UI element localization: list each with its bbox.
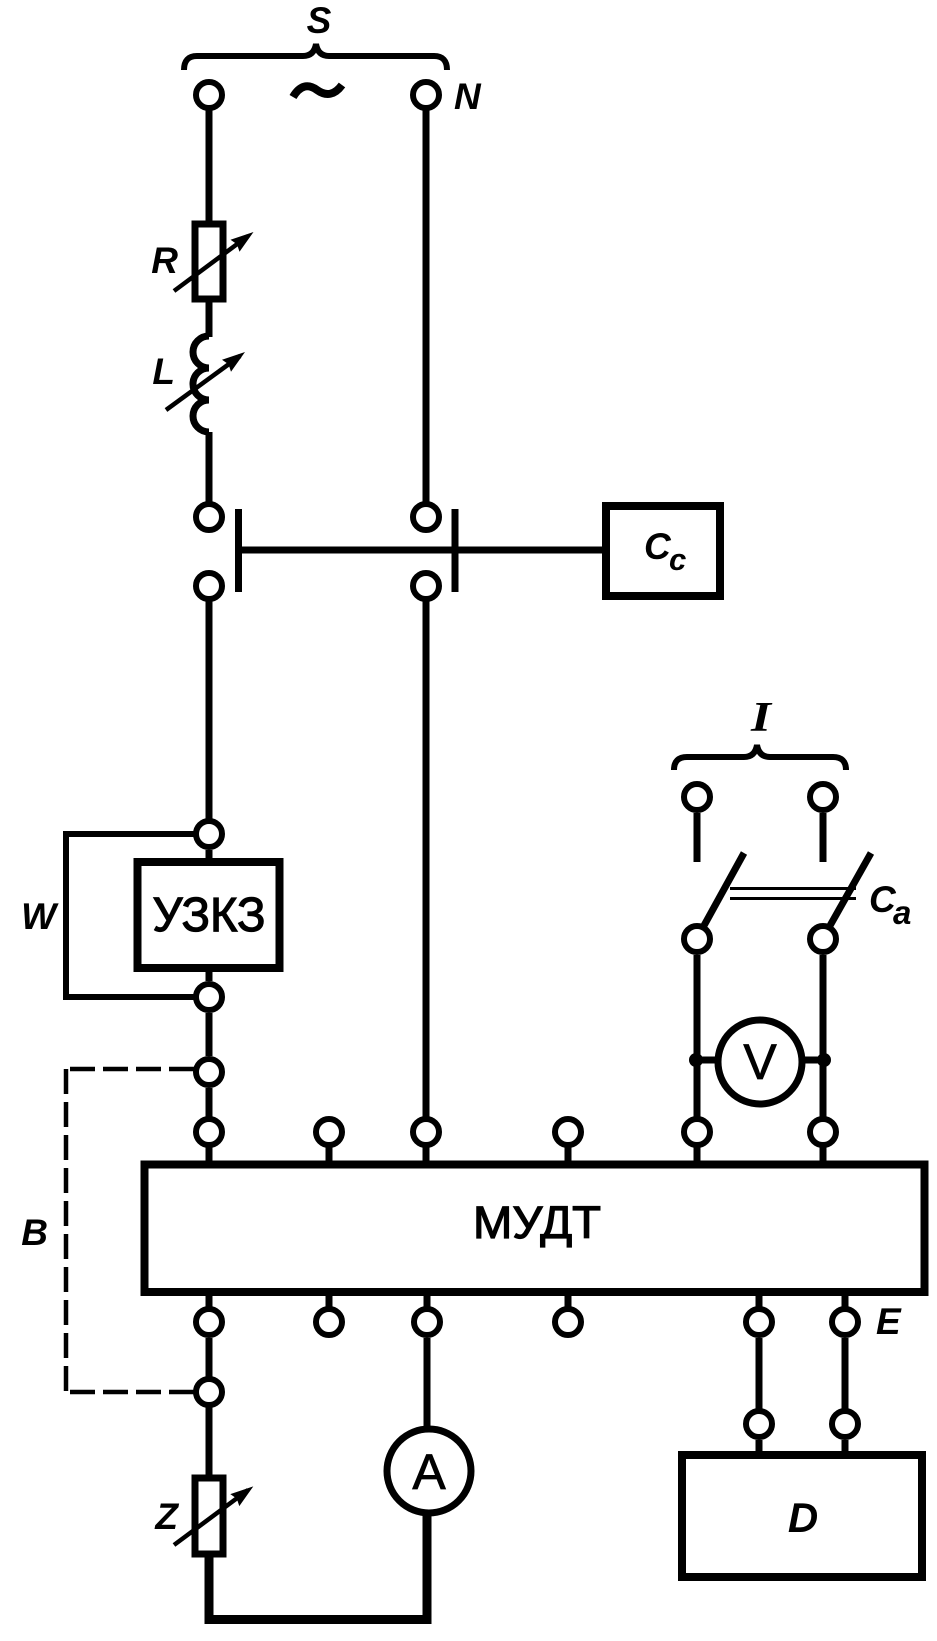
svg-text:S: S [307, 0, 332, 41]
svg-text:E: E [876, 1301, 902, 1342]
svg-text:A: A [412, 1444, 446, 1500]
svg-text:Z: Z [154, 1496, 179, 1537]
svg-text:B: B [21, 1212, 48, 1253]
svg-text:c: c [669, 542, 686, 577]
svg-text:I: I [750, 694, 773, 741]
svg-text:МУДТ: МУДТ [473, 1197, 601, 1248]
svg-text:L: L [152, 351, 175, 392]
svg-text:УЗКЗ: УЗКЗ [153, 889, 266, 942]
svg-text:W: W [21, 896, 59, 937]
svg-text:V: V [743, 1034, 777, 1090]
svg-text:D: D [788, 1494, 818, 1541]
svg-text:a: a [893, 894, 911, 931]
svg-text:R: R [151, 240, 178, 281]
svg-text:N: N [454, 76, 482, 117]
svg-text:C: C [644, 526, 672, 567]
